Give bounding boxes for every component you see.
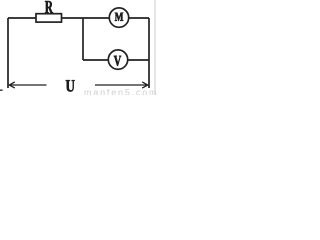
- svg-text:manfen5.com: manfen5.com: [84, 88, 156, 96]
